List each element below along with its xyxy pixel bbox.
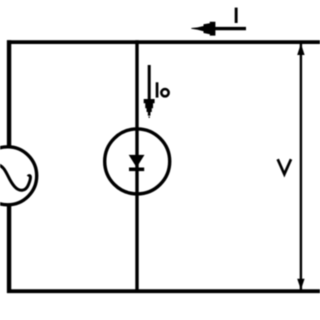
wire top xyxy=(7,40,320,44)
diode D1 (circled diode symbol) xyxy=(105,129,170,194)
wire bottom xyxy=(7,289,320,293)
wire left xyxy=(7,40,11,293)
arrow Io (output current, pointing down) xyxy=(144,65,155,118)
label Io xyxy=(156,82,169,97)
wire middle xyxy=(135,40,138,292)
arrow V (voltage measure, double headed) xyxy=(297,44,304,290)
label I xyxy=(235,8,238,23)
source VS (AC sine source, clipped at left edge) xyxy=(0,147,37,205)
arrow I (current direction, pointing left) xyxy=(191,22,246,36)
label V xyxy=(278,159,291,174)
